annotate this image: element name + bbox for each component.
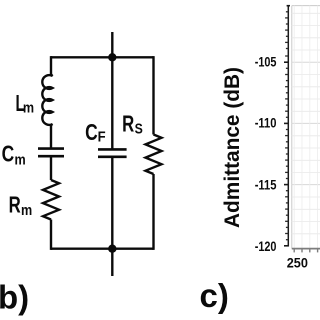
chart y-axis minor ticks xyxy=(285,12,288,240)
node bottom junction xyxy=(108,245,116,253)
chart y-axis line xyxy=(287,5,289,247)
resistor RS xyxy=(146,135,162,175)
label CF xyxy=(85,119,106,146)
chart x-axis ticks xyxy=(294,249,317,252)
label Lm xyxy=(16,90,35,117)
label Rm xyxy=(9,192,33,220)
svg-text:-120: -120 xyxy=(255,239,277,254)
capacitor CF xyxy=(98,149,127,156)
svg-text:m: m xyxy=(15,152,26,169)
chart major horizontal gridlines xyxy=(292,62,320,184)
svg-text:m: m xyxy=(21,202,32,219)
inductor Lm xyxy=(42,75,52,126)
svg-text:m: m xyxy=(23,100,34,117)
wire left branch lower xyxy=(50,220,52,250)
wire right branch upper xyxy=(152,56,154,134)
svg-text:R: R xyxy=(122,111,134,137)
label RS xyxy=(122,111,143,138)
svg-text:R: R xyxy=(9,192,21,218)
wire left branch upper xyxy=(50,56,52,75)
chart x-axis line xyxy=(292,248,320,250)
svg-text:c): c) xyxy=(200,277,229,314)
chart minor horizontal gridlines xyxy=(292,13,320,234)
svg-text:S: S xyxy=(135,121,143,138)
svg-text:Admittance (dB): Admittance (dB) xyxy=(221,67,244,228)
wire middle branch lower xyxy=(111,157,113,249)
wire left branch mid2 xyxy=(50,158,52,181)
wire middle branch upper xyxy=(111,57,113,149)
svg-text:-110: -110 xyxy=(255,116,277,131)
chart y-axis major ticks xyxy=(284,62,289,246)
svg-text:C: C xyxy=(85,119,98,145)
chart plot area left border xyxy=(291,6,293,249)
svg-text:250: 250 xyxy=(287,256,308,271)
svg-text:-105: -105 xyxy=(255,54,277,69)
chart plot area top border xyxy=(292,5,320,7)
svg-text:C: C xyxy=(2,141,15,167)
capacitor Cm xyxy=(38,149,64,157)
wire bottom stub xyxy=(111,249,113,276)
wire top stub xyxy=(111,32,113,57)
wire top rail xyxy=(51,56,154,58)
node top junction xyxy=(108,53,116,61)
chart y-axis top cap tick xyxy=(287,5,290,7)
svg-text:b): b) xyxy=(0,279,29,316)
svg-text:F: F xyxy=(98,129,106,146)
wire bottom rail xyxy=(51,247,154,249)
wire right branch lower xyxy=(152,174,154,250)
label Cm xyxy=(2,141,26,169)
chart vertical gridlines xyxy=(294,6,317,249)
svg-text:-115: -115 xyxy=(255,177,277,192)
resistor Rm xyxy=(43,180,59,220)
wire left branch mid1 xyxy=(50,125,52,149)
